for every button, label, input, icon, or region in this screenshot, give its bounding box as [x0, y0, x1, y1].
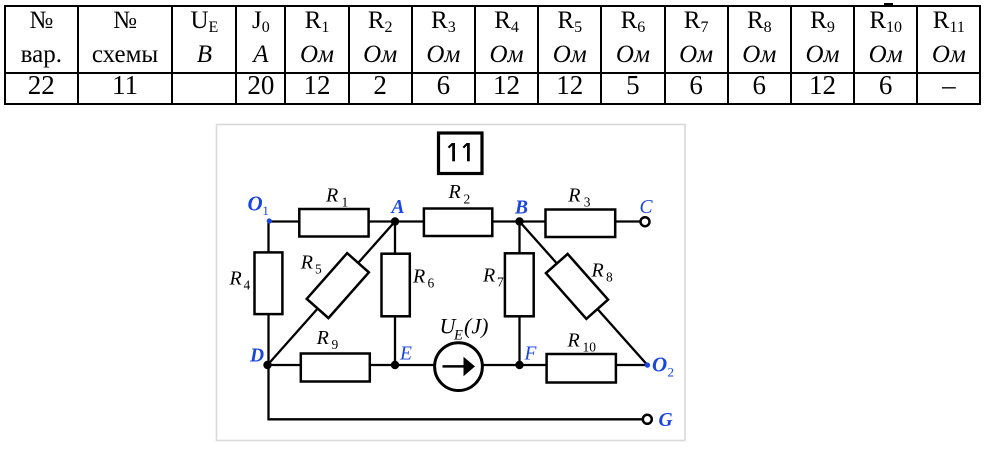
svg-text:R: R: [567, 330, 580, 352]
svg-text:3: 3: [584, 195, 591, 210]
schematic frame: [217, 125, 686, 441]
svg-text:A: A: [390, 197, 405, 218]
node B: [514, 198, 528, 226]
node C (terminal): [640, 197, 654, 226]
resistor R5 (rotated): [300, 252, 369, 319]
svg-text:R: R: [567, 185, 580, 207]
node F: [515, 344, 537, 370]
node D: [249, 346, 272, 370]
wire D to A diagonal (through R5): [268, 222, 396, 366]
svg-text:1: 1: [342, 195, 349, 210]
resistor R1: [299, 185, 368, 237]
variant number box: [439, 133, 483, 174]
wire source to O2 (mid): [483, 364, 647, 366]
node O2: [645, 352, 674, 379]
current source U_E(J): [435, 314, 489, 391]
node A: [390, 197, 405, 226]
svg-text:D: D: [249, 346, 264, 367]
svg-text:2: 2: [668, 364, 675, 379]
wire D to E (mid): [268, 364, 435, 366]
parameters table: [4, 5, 981, 105]
resistor R6: [382, 254, 435, 317]
svg-text:B: B: [514, 198, 528, 219]
wire A to E (vertical): [394, 222, 396, 366]
svg-text:R: R: [448, 181, 461, 203]
svg-text:9: 9: [332, 337, 339, 352]
svg-text:8: 8: [606, 270, 613, 285]
svg-text:O: O: [652, 352, 667, 376]
svg-text:R: R: [300, 252, 313, 274]
svg-text:4: 4: [244, 278, 251, 293]
svg-text:R: R: [412, 266, 425, 288]
svg-text:5: 5: [315, 262, 322, 277]
resistor R2: [424, 181, 492, 236]
svg-text:E: E: [453, 328, 463, 344]
svg-text:R: R: [325, 185, 338, 207]
svg-text:10: 10: [583, 340, 597, 355]
svg-text:(J): (J): [464, 314, 488, 339]
wire B to O2 diagonal (through R8): [520, 222, 648, 366]
resistor R3: [546, 185, 616, 238]
svg-text:O: O: [248, 192, 263, 216]
resistor R8 (rotated): [546, 254, 613, 319]
wire D to G (bottom): [269, 365, 644, 419]
wire B to C (top): [520, 220, 641, 222]
svg-text:2: 2: [464, 192, 471, 207]
resistor R9: [301, 327, 370, 382]
node G (terminal): [643, 410, 673, 431]
resistor R4: [229, 252, 283, 314]
svg-text:1: 1: [262, 203, 269, 218]
svg-text:F: F: [524, 344, 538, 365]
svg-text:6: 6: [428, 276, 435, 291]
svg-text:R: R: [482, 265, 495, 287]
svg-text:E: E: [399, 343, 412, 364]
svg-text:R: R: [316, 327, 329, 349]
svg-text:G: G: [659, 410, 673, 431]
wire O1 to A (top): [269, 220, 396, 222]
resistor R7: [482, 253, 534, 316]
svg-text:R: R: [591, 260, 604, 282]
svg-text:7: 7: [497, 275, 504, 290]
node O1: [248, 192, 272, 224]
svg-text:R: R: [229, 268, 242, 290]
wire O1 to D (left vertical): [267, 222, 269, 366]
resistor R10: [547, 330, 616, 383]
node E: [391, 343, 412, 369]
svg-text:C: C: [640, 197, 654, 218]
wire B to F (vertical): [518, 222, 520, 366]
wire A to B (top): [395, 220, 520, 222]
